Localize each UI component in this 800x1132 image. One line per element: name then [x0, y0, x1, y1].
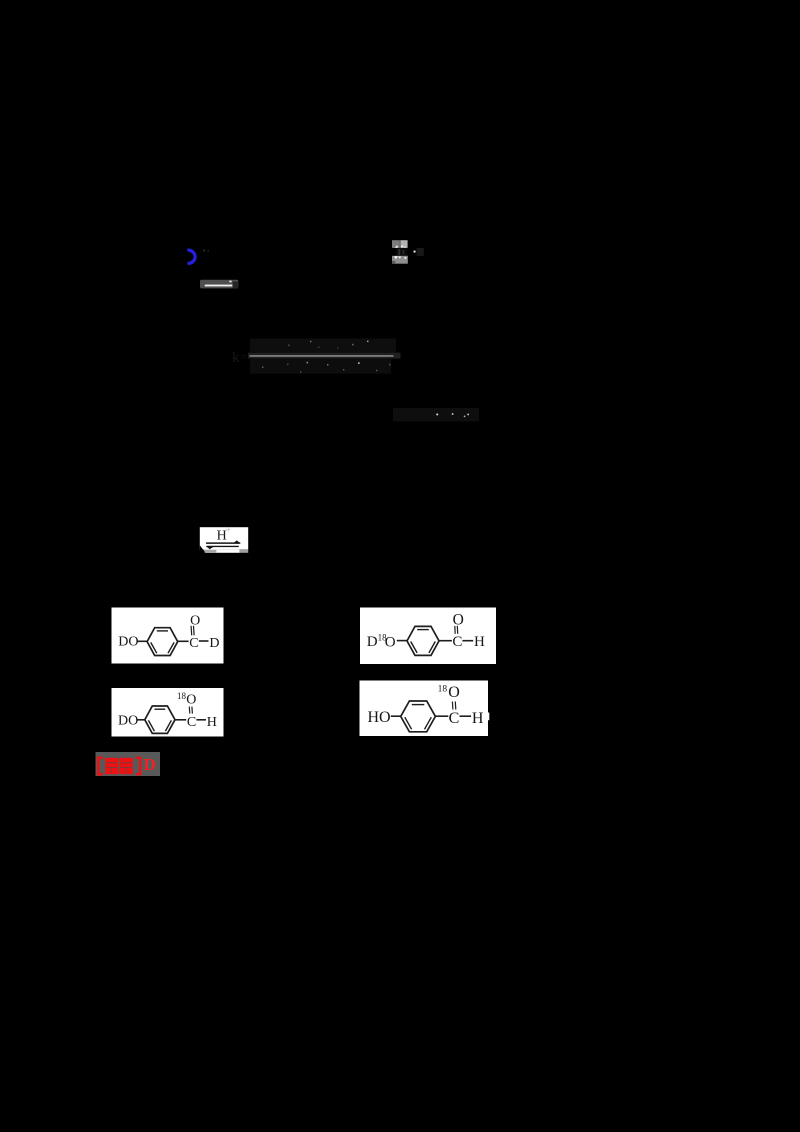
rate constant k (faint) — [232, 349, 247, 366]
option C C=18O double bond — [189, 707, 192, 714]
option B bond ring-C — [439, 640, 452, 642]
option C bond ring-C — [175, 719, 186, 721]
option C label H — [207, 715, 217, 730]
answer letter D — [144, 755, 156, 774]
highlighted formula fragment top blocks — [392, 240, 408, 248]
option A benzene ring — [147, 628, 178, 656]
answer glyph da — [105, 758, 118, 774]
option C bond O-ring — [137, 719, 145, 721]
blue parenthesis — [189, 250, 195, 263]
svg-text:18: 18 — [177, 691, 187, 701]
option D white box — [360, 681, 490, 737]
svg-text:k: k — [232, 350, 240, 366]
answer opening bracket — [98, 758, 103, 774]
svg-text:O: O — [453, 611, 464, 628]
svg-text:DO: DO — [118, 714, 138, 729]
svg-text:DO: DO — [118, 635, 138, 650]
svg-text:D: D — [367, 634, 378, 650]
svg-text:D: D — [209, 636, 219, 651]
option D bond ring-C — [435, 715, 448, 717]
option A carbonyl O — [190, 613, 200, 628]
option B label D18O — [367, 633, 396, 651]
option C isotope label 18 — [177, 691, 187, 701]
option A bond O-ring — [138, 640, 148, 642]
option D label HO — [368, 709, 391, 726]
option D bond O-ring — [391, 715, 401, 717]
svg-text:H: H — [472, 710, 484, 727]
fraction denominator (faint) — [250, 359, 391, 374]
svg-text:H: H — [474, 634, 485, 650]
option B carbonyl C — [452, 634, 462, 650]
svg-text:C: C — [187, 715, 196, 730]
option B bond C-H — [462, 640, 473, 642]
highlighted fragment right dark block — [414, 248, 424, 256]
H+ label — [217, 525, 231, 544]
bottom harpoon (left) — [206, 546, 239, 549]
option A bond C-D — [199, 640, 209, 642]
option B white box — [360, 608, 496, 665]
svg-text:H: H — [207, 715, 217, 730]
option D C=18O double bond — [452, 702, 455, 710]
svg-text:O: O — [190, 613, 200, 628]
fraction bar — [250, 355, 394, 357]
fraction bar highlight band — [248, 353, 401, 359]
svg-text:O: O — [385, 634, 396, 650]
svg-text:D: D — [144, 755, 156, 774]
svg-text:18: 18 — [438, 685, 448, 695]
svg-text:+: + — [226, 525, 231, 535]
option B carbonyl O — [453, 611, 464, 628]
option D label H — [472, 710, 484, 727]
answer highlight background — [96, 752, 161, 776]
option A C=O double bond — [191, 626, 194, 636]
option A white box — [112, 608, 224, 664]
option A label DO — [118, 635, 138, 650]
option A label D — [209, 636, 219, 651]
svg-text:HO: HO — [368, 709, 391, 726]
option A bond ring-C — [178, 640, 189, 642]
option C carbonyl C — [187, 715, 196, 730]
option C benzene ring — [145, 706, 175, 733]
option D carbonyl O — [448, 684, 460, 701]
answer closing bracket — [136, 758, 140, 774]
highlighted formula fragment middle — [396, 248, 408, 256]
answer glyph an — [120, 758, 133, 774]
option C white box — [112, 688, 224, 737]
option C label DO — [118, 714, 138, 729]
faint specks near parenthesis — [203, 250, 209, 252]
H+ equilibrium white box — [200, 527, 248, 553]
option D bond C-H — [460, 715, 472, 717]
fraction numerator (faint) — [250, 339, 396, 353]
option B bond O-ring — [397, 640, 407, 642]
option D isotope label 18 — [438, 685, 448, 695]
svg-text:O: O — [448, 684, 460, 701]
option A carbonyl C — [189, 636, 198, 651]
option C bond C-H — [196, 719, 206, 721]
svg-text:C: C — [449, 710, 460, 727]
option B label H — [474, 634, 485, 650]
option B benzene ring — [407, 626, 439, 655]
top harpoon (right) — [206, 540, 240, 543]
faint equilibrium-constant note — [393, 408, 479, 422]
option B C=O double bond — [455, 626, 458, 634]
svg-text:O: O — [186, 692, 196, 707]
option D benzene ring — [401, 701, 436, 732]
option C carbonyl O — [186, 692, 196, 707]
svg-text:=: = — [240, 349, 247, 364]
svg-text:C: C — [452, 634, 462, 650]
option D carbonyl C — [449, 710, 460, 727]
highlighted formula fragment bottom block — [392, 256, 408, 264]
highlighted equilibrium arrow — [200, 280, 238, 289]
svg-text:C: C — [189, 636, 198, 651]
